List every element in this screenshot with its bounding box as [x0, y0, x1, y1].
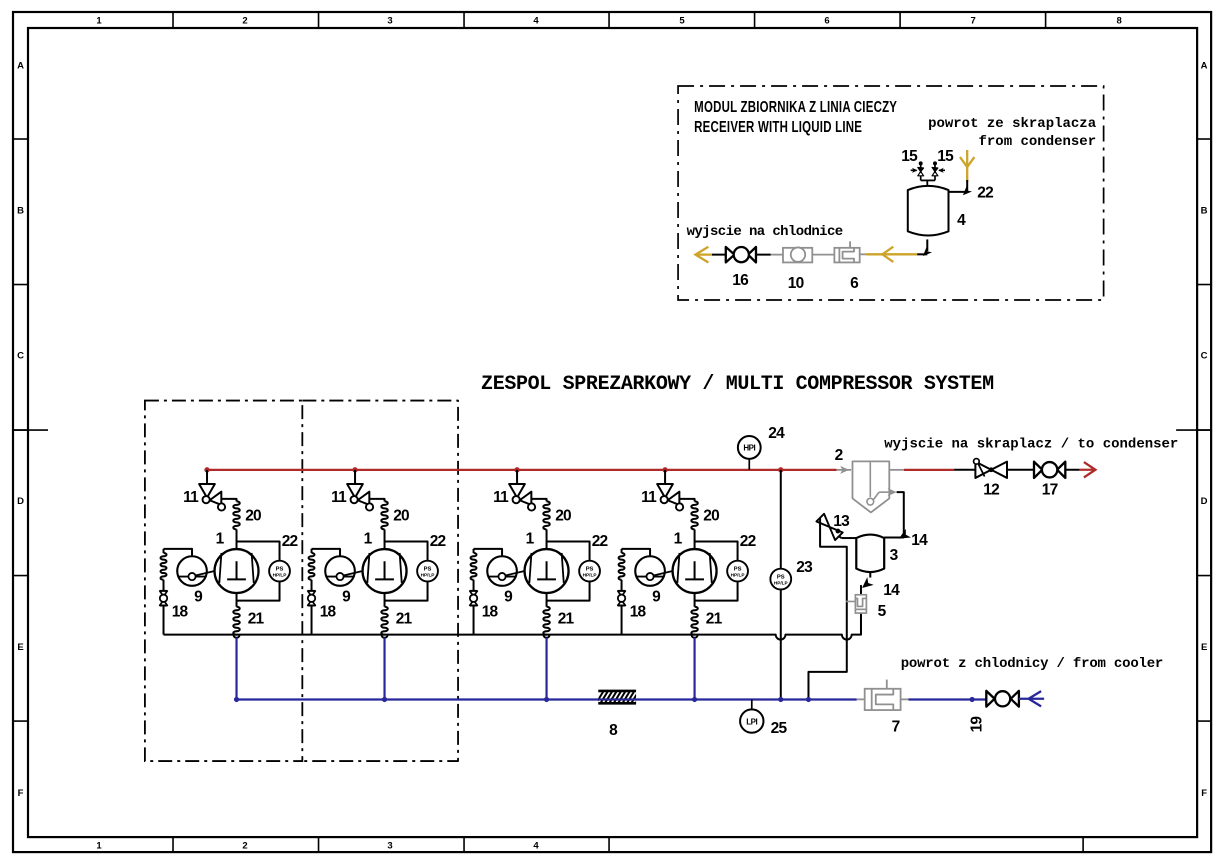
vibration absorber 20 (unit 4): [691, 501, 698, 529]
wire: oil line to sight glass (unit 2): [312, 549, 341, 556]
svg-text:14: 14: [911, 532, 928, 549]
svg-text:HP/LP: HP/LP: [731, 573, 745, 578]
svg-text:18: 18: [482, 604, 499, 621]
discharge service valve 11 (unit 3): [509, 484, 525, 498]
svg-text:8: 8: [609, 722, 618, 739]
wire: compressor bottom (unit 4): [694, 593, 696, 607]
flow arrow on condenser inlet: [960, 157, 974, 167]
wire: top loop to pressure switch (unit 1): [237, 542, 280, 561]
svg-text:1: 1: [526, 531, 535, 548]
suction vibration absorber 21 (unit 3): [543, 607, 550, 635]
wire: suction drop to suction header (blue, unit 1): [235, 638, 237, 700]
oil shut-off valve 18 (unit 4): [618, 590, 626, 592]
svg-text:1: 1: [216, 531, 225, 548]
check valve 12: [975, 462, 991, 478]
svg-text:8: 8: [1116, 16, 1121, 27]
wire: oil equalization drop (unit 1): [163, 549, 165, 553]
wire: liquid line to filter drier (yellow): [865, 253, 917, 255]
svg-text:RECEIVER WITH LIQUID LINE: RECEIVER WITH LIQUID LINE: [694, 118, 862, 135]
wire: condenser outlet arrow (red): [1080, 469, 1093, 471]
wire: oil line to sight glass (unit 1): [164, 549, 193, 556]
wire: valve 18 to suction header (unit 3): [473, 606, 475, 635]
svg-text:9: 9: [194, 589, 203, 606]
discharge service valve 11 (unit 2): [347, 484, 363, 498]
svg-text:3: 3: [387, 16, 392, 27]
svg-text:2: 2: [835, 447, 843, 464]
oil sight glass 9 (unit 1): [177, 556, 207, 586]
wire: outlet to coolers (yellow): [712, 254, 726, 256]
shut-off valve 19: [986, 691, 994, 707]
svg-text:20: 20: [555, 508, 571, 525]
oil sight glass 9 (unit 4): [635, 556, 665, 586]
svg-text:1: 1: [96, 16, 102, 27]
node: discharge header junction unit 2: [352, 467, 357, 472]
wire: oil equalization drop (unit 2): [311, 549, 313, 553]
oil filter 5: [846, 600, 856, 602]
wire: oil line to sight glass (unit 3): [474, 549, 503, 556]
flow arrow: from cooler: [1029, 691, 1042, 706]
svg-text:15: 15: [901, 148, 918, 165]
suction filter 7: [857, 698, 865, 700]
compressor unit enclosure box 1: [145, 401, 302, 762]
svg-text:11: 11: [493, 489, 509, 506]
discharge service valve 11 (unit 1): [199, 484, 215, 498]
wire: oil equalization drop (unit 4): [621, 549, 623, 553]
suction vibration absorber 21 (unit 4): [691, 607, 698, 635]
node: suction junctions: [234, 697, 239, 702]
shut-off valve 17: [1034, 462, 1042, 478]
node: discharge header junction unit 1: [204, 467, 209, 472]
svg-text:PS: PS: [424, 566, 432, 572]
note: RECEIVER WITH LIQUID LINE: [694, 118, 862, 135]
wire: to condenser (black segments): [954, 469, 975, 471]
svg-text:wyjscie na chlodnice: wyjscie na chlodnice: [687, 224, 843, 240]
svg-text:3: 3: [890, 547, 899, 564]
wire: pressure switch bottom loop (unit 3): [547, 581, 590, 600]
wire: liquid inlet from condenser (yellow): [966, 150, 968, 182]
relief valve 15 (right): [934, 176, 936, 181]
note: MODUL ZBIORNIKA Z LINIA CIECZY: [694, 98, 897, 115]
svg-text:2: 2: [242, 16, 247, 27]
svg-text:HP/LP: HP/LP: [273, 573, 287, 578]
vibration absorber 20 (unit 3): [543, 501, 550, 529]
receiver vessel 4: [908, 186, 949, 236]
wire: discharge drop unit 1: [206, 470, 208, 484]
wire: compressor bottom (unit 3): [546, 593, 548, 607]
pressure switch PS HP/LP 23: [770, 569, 791, 590]
svg-text:13: 13: [833, 513, 850, 530]
oil line absorber (unit 3): [471, 553, 477, 580]
oil valve 13: [842, 537, 857, 539]
wire: oil return / suction header: [164, 613, 861, 640]
wire: discharge line after separator (red): [904, 469, 954, 471]
wire: absorber to compressor suction top (unit 2): [384, 529, 386, 549]
wire: valve 11 to vibration absorber (unit 2): [369, 499, 384, 502]
svg-text:22: 22: [282, 533, 298, 550]
svg-text:17: 17: [1042, 482, 1058, 499]
svg-text:wyjscie na skraplacz / to cond: wyjscie na skraplacz / to condenser: [884, 437, 1178, 453]
svg-text:PS: PS: [276, 566, 284, 572]
wire: valve 11 to vibration absorber (unit 4): [679, 499, 694, 502]
svg-text:1: 1: [674, 531, 683, 548]
flow arrow: wyjscie na chlodnice: [695, 247, 708, 263]
pressure switch PS HP/LP 22 (unit 3): [579, 561, 600, 582]
svg-text:9: 9: [652, 589, 661, 606]
wire: absorber to compressor suction top (unit 4): [694, 529, 696, 549]
wire: top loop to pressure switch (unit 4): [695, 542, 738, 561]
vibration absorber 20 (unit 2): [381, 501, 388, 529]
svg-text:10: 10: [788, 275, 804, 292]
svg-text:21: 21: [706, 611, 723, 628]
oil line absorber (unit 1): [161, 553, 167, 580]
node 22: receiver inlet connection: [966, 180, 968, 192]
relief valve 15 (left): [920, 176, 922, 181]
svg-text:HP/LP: HP/LP: [421, 573, 435, 578]
svg-text:A: A: [1201, 61, 1208, 72]
oil sight glass 9 (unit 2): [325, 556, 355, 586]
gauge HPI (24) stem: [748, 459, 750, 470]
pressure switch PS HP/LP 22 (unit 1): [269, 561, 290, 582]
wire: separator outlet link: [889, 469, 904, 471]
gauge LPI (25): [740, 709, 763, 732]
wire: sight glass to valve 16: [771, 254, 783, 256]
svg-text:14: 14: [883, 582, 900, 599]
suction vibration absorber 21 (unit 1): [233, 607, 240, 635]
gauge LPI (25) stem: [751, 699, 753, 709]
wire: separator oil drain: [873, 492, 879, 500]
oil sight glass 9 (unit 3): [487, 556, 517, 586]
wire: reservoir bottom outlet: [869, 573, 871, 578]
wire: discharge drop unit 3: [516, 470, 518, 484]
svg-text:B: B: [17, 206, 24, 217]
wire: receiver bottom outlet: [926, 239, 928, 251]
wire: pressure switch 23 drop: [780, 470, 782, 569]
wire: valve 11 to vibration absorber (unit 3): [531, 499, 546, 502]
svg-text:powrot z chlodnicy / from cool: powrot z chlodnicy / from cooler: [901, 656, 1163, 672]
svg-text:18: 18: [320, 604, 337, 621]
svg-text:PS: PS: [734, 566, 742, 572]
svg-text:5: 5: [679, 16, 685, 27]
wire: compressor bottom (unit 1): [236, 593, 238, 607]
svg-text:HP/LP: HP/LP: [583, 573, 597, 578]
compressor 1 (unit 4): [673, 549, 717, 593]
wire: discharge drop unit 4: [664, 470, 666, 484]
svg-text:20: 20: [393, 508, 409, 525]
svg-text:HP/LP: HP/LP: [774, 581, 788, 586]
flow arrow on liquid line: [882, 247, 893, 262]
svg-text:21: 21: [396, 611, 413, 628]
wire: drain into oil reservoir: [884, 537, 904, 539]
compressor 1 (unit 3): [525, 549, 569, 593]
wire: valve 11 to vibration absorber (unit 1): [221, 499, 236, 502]
wire: pressure switch bottom loop (unit 2): [385, 581, 428, 600]
svg-text:19: 19: [969, 716, 986, 733]
svg-text:9: 9: [342, 589, 351, 606]
wire: filter drier to sight glass: [812, 254, 834, 256]
svg-text:1: 1: [96, 841, 102, 852]
wire: separator inlet link: [837, 469, 852, 471]
sight glass 10: [783, 248, 812, 263]
svg-text:LPI: LPI: [746, 717, 757, 726]
svg-text:12: 12: [983, 482, 999, 499]
svg-text:20: 20: [245, 508, 261, 525]
svg-text:E: E: [17, 642, 23, 653]
oil line absorber (unit 2): [309, 553, 315, 580]
svg-text:C: C: [17, 351, 24, 362]
pressure switch PS HP/LP 22 (unit 2): [417, 561, 438, 582]
wire: absorber to compressor suction top (unit 3): [546, 529, 548, 549]
wire: discharge drop unit 2: [354, 470, 356, 484]
oil shut-off valve 18 (unit 2): [308, 590, 316, 592]
gauge HPI (24): [738, 436, 761, 459]
svg-text:PS: PS: [586, 566, 594, 572]
wire: compressor bottom (unit 2): [384, 593, 386, 607]
svg-text:6: 6: [850, 275, 859, 292]
svg-text:F: F: [18, 788, 24, 799]
svg-text:PS: PS: [777, 574, 785, 580]
svg-text:22: 22: [592, 533, 608, 550]
shut-off valve 16: [726, 247, 735, 263]
receiver module boundary: [678, 86, 1104, 300]
svg-text:25: 25: [771, 720, 788, 737]
node: discharge header junction unit 3: [514, 467, 519, 472]
svg-text:E: E: [1201, 642, 1207, 653]
svg-text:4: 4: [957, 212, 966, 229]
svg-text:23: 23: [796, 559, 813, 576]
svg-text:1: 1: [364, 531, 373, 548]
svg-text:7: 7: [970, 16, 975, 27]
svg-text:16: 16: [732, 272, 749, 289]
wire: top loop to pressure switch (unit 3): [547, 542, 590, 561]
oil reservoir 3: [856, 535, 884, 573]
discharge service valve 11 (unit 4): [657, 484, 673, 498]
wire: suction drop to suction header (blue, unit 3): [545, 638, 547, 700]
svg-text:7: 7: [892, 719, 900, 736]
svg-text:B: B: [1201, 206, 1208, 217]
svg-text:MODUL ZBIORNIKA Z LINIA CIECZY: MODUL ZBIORNIKA Z LINIA CIECZY: [694, 98, 897, 115]
svg-text:D: D: [17, 496, 24, 507]
svg-text:18: 18: [172, 604, 189, 621]
svg-text:21: 21: [558, 611, 575, 628]
svg-text:HPI: HPI: [743, 444, 755, 453]
oil shut-off valve 18 (unit 1): [160, 590, 168, 592]
svg-text:C: C: [1201, 351, 1208, 362]
svg-text:D: D: [1201, 496, 1208, 507]
compressor 1 (unit 2): [363, 549, 407, 593]
svg-text:ZESPOL SPREZARKOWY / MULTI COM: ZESPOL SPREZARKOWY / MULTI COMPRESSOR SY…: [481, 373, 994, 396]
node: header tap for pressure switch 23: [778, 467, 783, 472]
wire: valve 18 to suction header (unit 4): [621, 606, 623, 635]
filter drier 6: [860, 253, 866, 255]
svg-text:3: 3: [387, 841, 392, 852]
wire: absorber to compressor suction top (unit 1): [236, 529, 238, 549]
wire: top loop to pressure switch (unit 2): [385, 542, 428, 561]
svg-text:11: 11: [641, 489, 657, 506]
svg-text:21: 21: [248, 611, 265, 628]
oil separator 2: [852, 461, 889, 512]
svg-text:powrot ze skraplacza: powrot ze skraplacza: [928, 116, 1097, 132]
svg-text:18: 18: [630, 604, 647, 621]
svg-text:5: 5: [878, 603, 887, 620]
wire: from cooler inlet (blue): [1019, 698, 1044, 700]
compressor 1 (unit 1): [215, 549, 259, 593]
wire: suction header (blue): [237, 698, 857, 700]
wire: suction drop to suction header (blue, unit 2): [383, 638, 385, 700]
svg-text:24: 24: [768, 425, 785, 442]
svg-text:22: 22: [430, 533, 446, 550]
wire: pressure switch bottom loop (unit 4): [695, 581, 738, 600]
svg-text:11: 11: [331, 489, 347, 506]
svg-text:22: 22: [740, 533, 756, 550]
oil line absorber (unit 4): [619, 553, 625, 580]
svg-text:20: 20: [703, 508, 719, 525]
wire: discharge header (red): [207, 469, 837, 471]
svg-text:4: 4: [533, 841, 539, 852]
svg-text:F: F: [1201, 788, 1207, 799]
relief valve manifold: [926, 180, 928, 185]
node: discharge header junction unit 4: [662, 467, 667, 472]
wire: suction drop to suction header (blue, unit 4): [693, 638, 695, 700]
svg-text:2: 2: [242, 841, 247, 852]
svg-text:9: 9: [504, 589, 513, 606]
pressure switch PS HP/LP 22 (unit 4): [727, 561, 748, 582]
svg-text:from condenser: from condenser: [978, 134, 1096, 150]
wire: oil line to sight glass (unit 4): [622, 549, 651, 556]
svg-text:11: 11: [183, 489, 199, 506]
wire: oil equalization drop (unit 3): [473, 549, 475, 553]
suction vibration absorber 21 (unit 2): [381, 607, 388, 635]
svg-text:4: 4: [533, 16, 539, 27]
svg-text:15: 15: [937, 148, 954, 165]
vibration absorber 20 (unit 1): [233, 501, 240, 529]
svg-text:6: 6: [824, 16, 829, 27]
wire: valve 18 to suction header (unit 2): [311, 606, 313, 635]
wire: pressure switch bottom loop (unit 1): [237, 581, 280, 600]
wire: valve 18 to suction header (unit 1): [163, 606, 165, 635]
compressor unit enclosure box 2: [302, 401, 458, 762]
svg-text:22: 22: [977, 185, 993, 202]
oil shut-off valve 18 (unit 3): [470, 590, 478, 592]
svg-text:A: A: [17, 61, 24, 72]
wire: valve 13 to suction header: [808, 518, 846, 700]
